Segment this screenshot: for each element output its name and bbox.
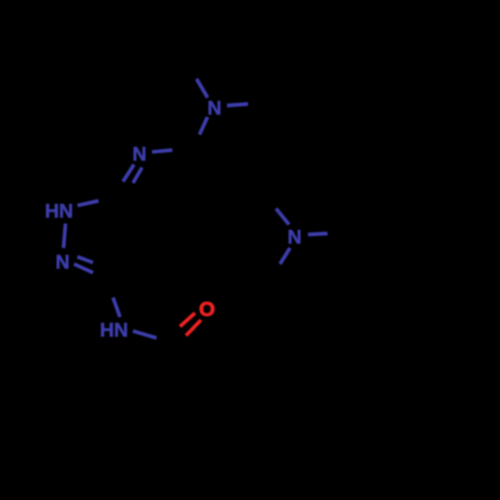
- svg-text:N: N: [132, 143, 146, 165]
- svg-text:N: N: [207, 98, 221, 120]
- wire piperidine N up-left half-bond: [276, 209, 289, 225]
- wire pyrazole N2 double bond inner half: [77, 257, 93, 263]
- svg-text:N: N: [56, 252, 70, 274]
- wire pyridine-N double bond main half: [123, 165, 134, 182]
- wire pyridine-N double bond inner half: [133, 168, 142, 184]
- svg-text:HN: HN: [45, 200, 73, 222]
- wire pyrazole NH up-right half-bond: [78, 201, 99, 206]
- svg-text:HN: HN: [100, 320, 128, 342]
- wire amide NH upper half-bond: [113, 298, 120, 318]
- wire N(CH3) right half-bond: [227, 104, 248, 106]
- wire pyrazole N-N bond: [64, 224, 66, 249]
- wire pyridine-N right half-bond: [152, 150, 172, 152]
- wire N(CH3) methyl half-bond: [197, 79, 208, 98]
- wire amide NH right half-bond: [133, 331, 157, 338]
- svg-text:N: N: [288, 226, 302, 248]
- wire carbonyl C=O inner half: [180, 313, 195, 327]
- svg-text:O: O: [199, 298, 215, 321]
- wire carbonyl C=O main half: [186, 320, 201, 336]
- wire N(CH3) lower-left half-bond: [200, 117, 208, 135]
- wire piperidine N right half-bond: [308, 234, 328, 235]
- wire pyrazole N2 double bond main half: [74, 264, 93, 273]
- wire piperidine N down-left half-bond: [280, 248, 290, 264]
